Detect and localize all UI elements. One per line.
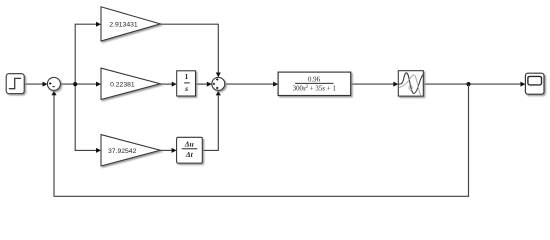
- derivative du/dt: [177, 137, 203, 163]
- wire sum2 to transfer fn: [225, 83, 274, 85]
- wire gain2 to integrator: [160, 83, 172, 85]
- svg-text:300s2 + 35s + 1: 300s2 + 35s + 1: [293, 85, 337, 92]
- arrowhead into gain2: [96, 82, 101, 87]
- arrowhead into sum1 bottom: [52, 91, 57, 96]
- junction dot node B: [466, 82, 470, 86]
- wire sum1 to gain2: [60, 83, 96, 85]
- feedback wire: [54, 84, 469, 196]
- svg-text:Δu: Δu: [184, 139, 194, 148]
- arrowhead into sum2 top: [216, 73, 221, 78]
- arrowhead into delay: [393, 82, 398, 87]
- gain K3: [101, 135, 160, 166]
- scope: [525, 73, 544, 94]
- svg-text:s: s: [184, 84, 188, 93]
- arrowhead into transfer fn: [273, 82, 278, 87]
- wire delay to scope: [423, 83, 521, 85]
- gain K2: [101, 68, 160, 99]
- wire gain1 to sum2 top: [160, 24, 218, 72]
- arrowhead into gain3: [96, 148, 101, 153]
- wire gain3 to derivative: [160, 149, 172, 151]
- arrowhead into sum2 left: [207, 82, 212, 87]
- arrowhead into sum2 bottom: [216, 91, 221, 96]
- wire derivative to sum2 bottom: [202, 96, 218, 151]
- wire branch down to gain3: [75, 84, 96, 150]
- svg-text:Δt: Δt: [185, 150, 194, 159]
- arrowhead into integrator: [172, 82, 177, 87]
- svg-text:37.92542: 37.92542: [108, 148, 137, 155]
- sum S2: [212, 77, 225, 90]
- svg-text:0.22381: 0.22381: [110, 81, 135, 88]
- sum S1: [47, 77, 60, 90]
- transport delay: [398, 71, 423, 96]
- gain K1: [101, 7, 160, 41]
- wire branch up to gain1: [75, 24, 96, 84]
- integrator 1/s: [177, 71, 196, 96]
- arrowhead into sum1 left: [43, 82, 48, 87]
- wire integrator to sum2: [196, 83, 208, 85]
- arrowhead into derivative: [172, 148, 177, 153]
- svg-text:2.913431: 2.913431: [109, 21, 138, 28]
- wire step to sum1: [24, 83, 43, 85]
- wire transfer fn to delay: [351, 83, 394, 85]
- arrowhead into gain1: [96, 22, 101, 27]
- junction dot node A: [73, 82, 77, 86]
- step block: [6, 74, 24, 94]
- arrowhead into scope: [520, 82, 525, 87]
- svg-text:1: 1: [185, 72, 189, 81]
- transfer function plant: [278, 72, 351, 95]
- svg-text:0.96: 0.96: [308, 76, 321, 83]
